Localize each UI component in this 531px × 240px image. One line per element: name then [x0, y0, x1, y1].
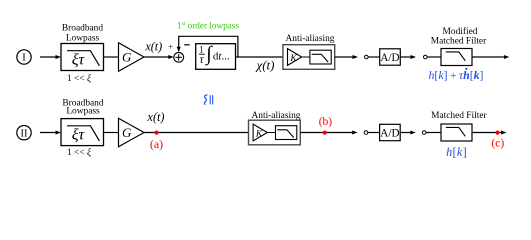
svg-text:+: +	[168, 41, 173, 51]
svg-text:Anti-aliasing: Anti-aliasing	[286, 34, 335, 44]
svg-text:II: II	[21, 128, 28, 139]
svg-text:x(t): x(t)	[144, 39, 162, 53]
svg-text:Modified: Modified	[443, 26, 478, 37]
svg-text:I: I	[22, 53, 26, 64]
svg-text:1 << ξ: 1 << ξ	[67, 147, 92, 158]
svg-text:(a): (a)	[150, 137, 163, 151]
svg-text:h[k]: h[k]	[446, 145, 467, 159]
svg-text:Lowpass: Lowpass	[66, 34, 100, 44]
svg-text:1st order lowpass: 1st order lowpass	[177, 21, 239, 31]
svg-text:Matched Filter: Matched Filter	[431, 111, 487, 121]
svg-text:1: 1	[199, 44, 204, 54]
svg-text:Lowpass: Lowpass	[66, 107, 100, 117]
svg-text:χ(t): χ(t)	[255, 57, 275, 72]
svg-text:Matched Filter: Matched Filter	[431, 37, 487, 47]
svg-text:1 << ξ: 1 << ξ	[67, 73, 92, 84]
svg-text:dt...: dt...	[213, 51, 230, 63]
svg-text:x(t): x(t)	[147, 110, 165, 124]
svg-text:Broadband: Broadband	[62, 24, 103, 34]
svg-text:h[k] + τh[k]: h[k] + τh[k]	[429, 68, 484, 82]
svg-text:(c): (c)	[491, 137, 504, 149]
svg-text:(b): (b)	[319, 116, 333, 128]
